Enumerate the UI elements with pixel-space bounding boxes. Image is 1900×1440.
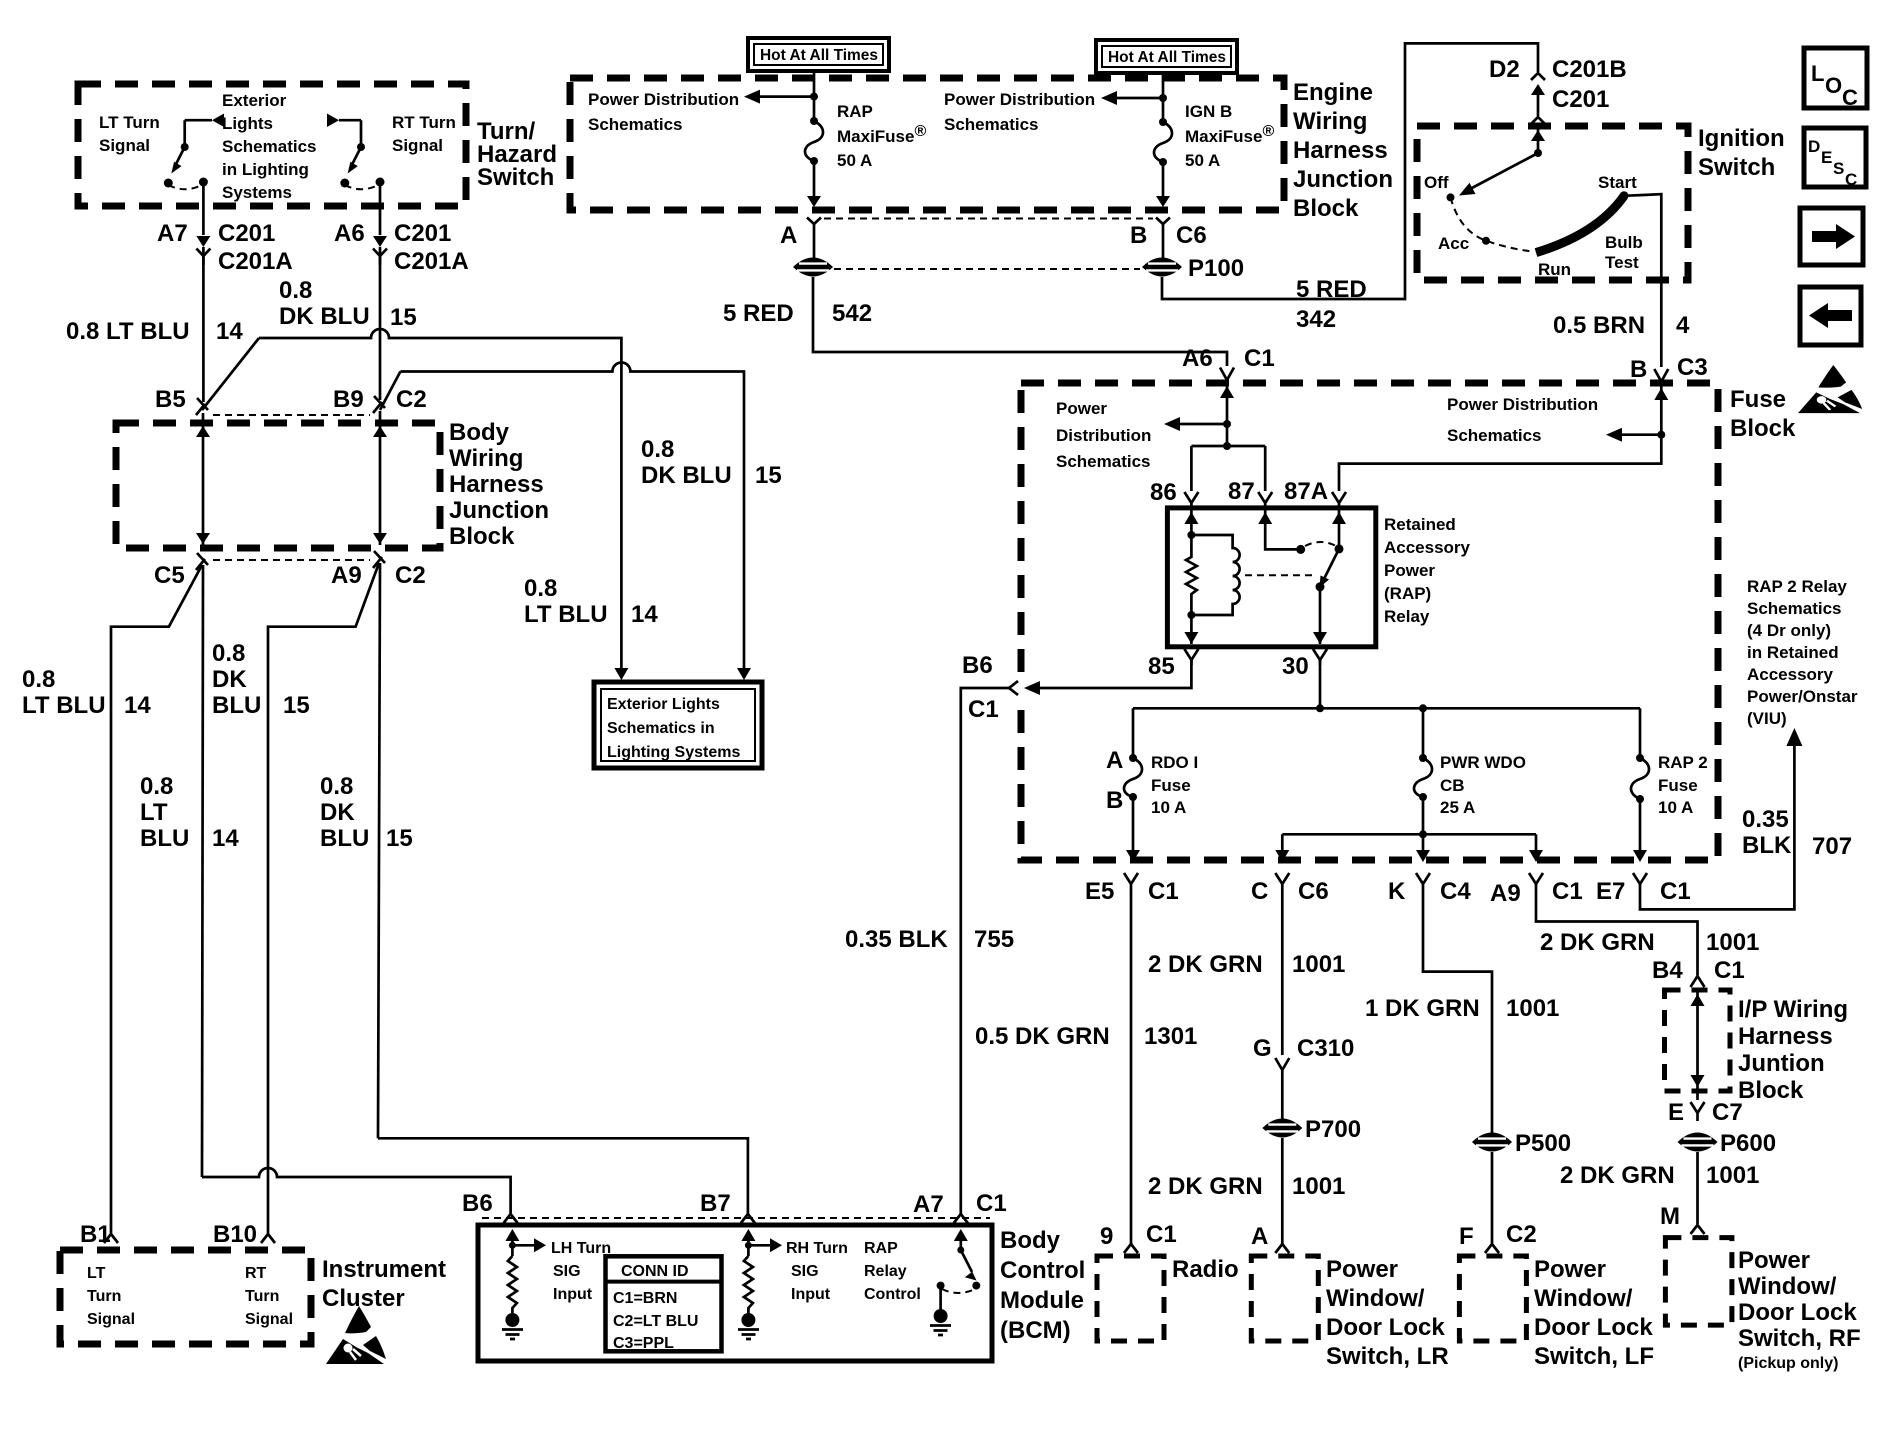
arrows on left junction wire: [196, 426, 210, 437]
svg-text:DK: DK: [320, 799, 355, 826]
svg-text:Harness: Harness: [1293, 137, 1388, 164]
svg-text:Body: Body: [449, 419, 510, 446]
Hot At All Times box 2: [1096, 40, 1237, 73]
B C3 connector into fuse block: [1654, 369, 1668, 382]
svg-text:C310: C310: [1297, 1035, 1354, 1062]
svg-text:C201B: C201B: [1552, 56, 1627, 83]
arrows on right junction wire: [373, 426, 387, 437]
RDO I fuse wire down: [1132, 708, 1135, 758]
svg-text:RAP 2 Relay: RAP 2 Relay: [1747, 577, 1847, 596]
D2 connector stack C201B / C201: [1531, 73, 1545, 80]
svg-text:RAP 2: RAP 2: [1658, 753, 1708, 772]
svg-text:A: A: [780, 222, 797, 249]
wire C5 straight down (to B6): [202, 565, 203, 1177]
svg-text:C1: C1: [1244, 345, 1275, 372]
svg-text:in Retained: in Retained: [1747, 643, 1839, 662]
svg-text:Signal: Signal: [87, 1311, 135, 1328]
svg-text:14: 14: [631, 601, 658, 628]
svg-text:542: 542: [832, 300, 872, 327]
wire diagonal B5 up to horizontal run: [202, 338, 259, 410]
svg-text:Run: Run: [1538, 260, 1571, 279]
svg-text:C1: C1: [1660, 878, 1691, 905]
svg-text:(RAP): (RAP): [1384, 584, 1431, 603]
wire horizontal 0.8 DK BLU run to exterior lights (with hop over first wire): [400, 363, 744, 669]
Power Window Door Lock Switch LR dashed box: [1251, 1256, 1318, 1341]
svg-text:Switch, LR: Switch, LR: [1326, 1343, 1449, 1370]
svg-text:1001: 1001: [1706, 929, 1759, 956]
svg-text:RAP: RAP: [837, 102, 873, 121]
svg-text:Window/: Window/: [1326, 1285, 1425, 1312]
PWR WDO CB wire down: [1422, 708, 1425, 758]
svg-text:F: F: [1459, 1223, 1474, 1250]
wire from Hot box2 down: [1162, 73, 1165, 121]
svg-text:Instrument: Instrument: [322, 1256, 446, 1283]
svg-text:B: B: [1630, 356, 1647, 383]
svg-text:15: 15: [755, 462, 782, 489]
svg-text:Power: Power: [1738, 1247, 1810, 1274]
wire fuse down to box edge with arrow: [1162, 162, 1165, 196]
svg-text:B: B: [1130, 222, 1147, 249]
svg-text:B: B: [1106, 787, 1123, 814]
Exterior Lights Schematics box: [594, 682, 762, 768]
svg-text:0.5 BRN: 0.5 BRN: [1553, 312, 1645, 339]
svg-text:Schematics: Schematics: [222, 137, 317, 156]
svg-text:Schematics: Schematics: [1447, 426, 1542, 445]
relay coil winding: [1191, 535, 1239, 615]
A9 connector (slanted): [373, 551, 385, 568]
relay pin 86 connector: [1184, 492, 1198, 508]
wire 542 from grommet to fuse block: [813, 277, 1227, 366]
wire A9 diagonal to B10 branch: [268, 563, 379, 1228]
svg-text:DK BLU: DK BLU: [279, 303, 370, 330]
BCM connector face dashed line: [482, 1217, 990, 1219]
svg-text:Juntion: Juntion: [1738, 1050, 1825, 1077]
svg-text:Exterior Lights: Exterior Lights: [607, 696, 720, 713]
svg-text:Relay: Relay: [864, 1263, 907, 1280]
svg-text:C2: C2: [1506, 1221, 1537, 1248]
Acc contact dot: [1482, 237, 1490, 245]
svg-text:0.8: 0.8: [22, 666, 55, 693]
svg-text:A7: A7: [913, 1191, 944, 1218]
svg-text:Switch: Switch: [477, 164, 554, 191]
svg-text:DK BLU: DK BLU: [641, 462, 732, 489]
svg-text:Signal: Signal: [99, 136, 150, 155]
wire C310 to P700: [1281, 1078, 1284, 1119]
svg-text:C1: C1: [968, 696, 999, 723]
svg-text:0.35: 0.35: [1742, 806, 1789, 833]
svg-text:4: 4: [1676, 312, 1690, 339]
svg-text:87A: 87A: [1284, 478, 1328, 505]
svg-text:15: 15: [386, 825, 413, 852]
wire from Hot box1 down: [813, 71, 816, 120]
connector face dashed line: [824, 218, 1153, 220]
RT turn switch: [327, 114, 385, 190]
svg-text:14: 14: [212, 825, 239, 852]
grommet P600: [1678, 1133, 1718, 1152]
RAP 2 fuse wire down: [1639, 708, 1642, 758]
svg-text:Switch: Switch: [1698, 154, 1775, 181]
svg-text:Block: Block: [1293, 195, 1359, 222]
svg-text:1301: 1301: [1144, 1023, 1197, 1050]
wire 85 to B6/C1 (RAP relay control): [1038, 660, 1191, 688]
arrow down into exterior lights box: [614, 668, 628, 680]
svg-text:0.35 BLK: 0.35 BLK: [845, 926, 948, 953]
I/P Wiring Harness Juntion Block dashed box: [1665, 990, 1731, 1091]
arrow down into exterior lights box: [737, 668, 751, 680]
svg-text:RH Turn: RH Turn: [786, 1240, 848, 1257]
svg-text:D: D: [1808, 137, 1820, 156]
splitter drop to A9/C1: [1535, 834, 1538, 850]
svg-text:Switch, LF: Switch, LF: [1534, 1343, 1654, 1370]
A6/C1 entry arrow up: [1226, 384, 1229, 424]
C C6 connector: [1275, 873, 1289, 896]
svg-text:C1: C1: [1714, 957, 1745, 984]
svg-text:Hot At All Times: Hot At All Times: [760, 47, 878, 64]
svg-text:0.8: 0.8: [524, 575, 557, 602]
relay contact 87 wire: [1265, 510, 1301, 549]
svg-text:P700: P700: [1305, 1116, 1361, 1143]
relay pin 87 connector: [1258, 492, 1272, 508]
svg-text:E7: E7: [1596, 878, 1625, 905]
svg-text:2 DK GRN: 2 DK GRN: [1148, 1173, 1263, 1200]
svg-text:Cluster: Cluster: [322, 1285, 405, 1312]
svg-text:Harness: Harness: [1738, 1023, 1833, 1050]
wire fuse down to box edge with arrow: [813, 161, 816, 196]
svg-text:1001: 1001: [1292, 951, 1345, 978]
svg-text:in Lighting: in Lighting: [222, 160, 309, 179]
svg-text:Test: Test: [1605, 253, 1639, 272]
svg-text:85: 85: [1148, 653, 1175, 680]
svg-text:9: 9: [1100, 1223, 1113, 1250]
left arrow icon box: [1800, 287, 1861, 345]
svg-text:86: 86: [1150, 479, 1177, 506]
B1 connector: [104, 1228, 118, 1243]
svg-text:C201A: C201A: [218, 248, 293, 275]
svg-text:50 A: 50 A: [1185, 151, 1220, 170]
svg-text:Accessory: Accessory: [1747, 665, 1834, 684]
svg-text:0.8: 0.8: [641, 436, 674, 463]
svg-text:(4 Dr only): (4 Dr only): [1747, 621, 1831, 640]
svg-text:C: C: [1251, 878, 1268, 905]
svg-text:25 A: 25 A: [1440, 798, 1475, 817]
svg-text:Wiring: Wiring: [1293, 108, 1367, 135]
svg-text:Turn: Turn: [87, 1288, 121, 1305]
svg-text:C1: C1: [1552, 878, 1583, 905]
relay coil wire to pin 85: [1190, 615, 1193, 644]
wire RDO I fuse to E5: [1132, 797, 1135, 850]
svg-text:Schematics: Schematics: [1056, 452, 1151, 471]
svg-text:Input: Input: [791, 1286, 831, 1303]
svg-text:C5: C5: [154, 562, 185, 589]
dashed curve 87 contact to 87A: [1305, 542, 1336, 546]
LOC icon box: [1804, 48, 1867, 110]
svg-text:B6: B6: [962, 652, 993, 679]
svg-text:Window/: Window/: [1534, 1285, 1633, 1312]
svg-text:I/P Wiring: I/P Wiring: [1738, 996, 1848, 1023]
svg-text:Systems: Systems: [222, 183, 292, 202]
BCM solid box: [478, 1225, 992, 1361]
Off contact dot: [1447, 193, 1455, 201]
G C310 connector: [1275, 1058, 1289, 1078]
wire B7 horizontal run: [378, 1138, 748, 1210]
svg-text:PWR WDO: PWR WDO: [1440, 753, 1526, 772]
svg-text:RAP: RAP: [864, 1240, 898, 1257]
B5 connector (slanted): [196, 398, 208, 415]
K C4 connector: [1416, 873, 1430, 896]
svg-text:C201: C201: [218, 220, 275, 247]
wire P600 down to M connector: [1696, 1152, 1699, 1224]
relay pin 87A connector: [1332, 492, 1346, 508]
Ignition Switch dashed box: [1417, 126, 1688, 280]
RAP MaxiFuse 50A fuse element: [810, 117, 818, 125]
wire A9 to B4 run: [1536, 896, 1698, 975]
svg-text:Module: Module: [1000, 1287, 1084, 1314]
relay resistor (parallel): [1186, 535, 1197, 615]
B4 C1 connector: [1691, 976, 1705, 987]
svg-text:S: S: [1833, 159, 1844, 178]
svg-text:Power: Power: [1534, 1256, 1606, 1283]
svg-text:Harness: Harness: [449, 471, 544, 498]
svg-text:C3=PPL: C3=PPL: [613, 1335, 674, 1352]
svg-text:2 DK GRN: 2 DK GRN: [1540, 929, 1655, 956]
relay arm wire to pin 30: [1319, 587, 1322, 644]
fuse bus: [1133, 707, 1640, 710]
RAP Relay Control switch circuit: [930, 1229, 980, 1335]
svg-text:BLU: BLU: [140, 825, 189, 852]
svg-text:Power Distribution: Power Distribution: [944, 90, 1095, 109]
svg-text:C1=BRN: C1=BRN: [613, 1290, 677, 1307]
svg-text:342: 342: [1296, 306, 1336, 333]
wire through junction block right: [379, 411, 382, 545]
svg-text:BLU: BLU: [320, 825, 369, 852]
E5 C1 connector: [1124, 873, 1138, 896]
svg-text:LT BLU: LT BLU: [22, 692, 106, 719]
A connector (power window LR): [1275, 1240, 1289, 1253]
svg-text:Exterior: Exterior: [222, 91, 287, 110]
svg-text:A: A: [1251, 1223, 1268, 1250]
wire down to 86/87 splitter: [1226, 424, 1229, 446]
dashed detent arc Off-Acc-Run: [1451, 197, 1534, 251]
svg-text:C3: C3: [1677, 354, 1708, 381]
connector C201/C201A arrow+Y on A7 wire: [196, 236, 210, 247]
svg-text:LT: LT: [140, 799, 168, 826]
wire K to P500 run: [1423, 896, 1492, 1133]
junction dot: [1159, 94, 1167, 102]
svg-text:14: 14: [124, 692, 151, 719]
svg-text:Block: Block: [1738, 1077, 1804, 1104]
svg-text:A: A: [1106, 747, 1123, 774]
svg-text:C4: C4: [1440, 878, 1471, 905]
wire A9 straight down (to B7): [378, 563, 380, 1138]
svg-text:P600: P600: [1720, 1130, 1776, 1157]
RH Turn SIG Input circuit: [738, 1229, 782, 1339]
wire from Start down to fuse block: [1624, 194, 1661, 367]
svg-text:E: E: [1668, 1099, 1684, 1126]
svg-text:A7: A7: [157, 220, 188, 247]
svg-text:C1: C1: [976, 1190, 1007, 1217]
svg-text:Relay: Relay: [1384, 607, 1430, 626]
svg-text:14: 14: [216, 318, 243, 345]
Run-Start thick arc (Bulb Test range): [1536, 196, 1624, 253]
svg-text:LT: LT: [87, 1265, 106, 1282]
M connector: [1691, 1225, 1705, 1234]
svg-text:(Pickup only): (Pickup only): [1738, 1355, 1838, 1372]
A7 connector (BCM): [954, 1210, 968, 1223]
grommet P100 left: [793, 258, 833, 277]
arrow to power distribution schematics (fuse block right): [1620, 433, 1661, 436]
B10 connector: [261, 1228, 275, 1243]
svg-text:87: 87: [1228, 478, 1255, 505]
svg-text:Schematics: Schematics: [1747, 599, 1842, 618]
grommet P100 right: [1142, 258, 1182, 277]
splitter drop to K/C4: [1422, 834, 1425, 850]
svg-text:B1: B1: [80, 1221, 111, 1248]
svg-text:Input: Input: [553, 1286, 593, 1303]
wire RAP relay control down to BCM A7: [961, 688, 1009, 1210]
svg-text:C2=LT BLU: C2=LT BLU: [613, 1313, 698, 1330]
svg-text:C: C: [1845, 170, 1857, 189]
svg-text:Distribution: Distribution: [1056, 426, 1151, 445]
svg-text:A6: A6: [334, 220, 365, 247]
svg-text:Door Lock: Door Lock: [1534, 1314, 1653, 1341]
svg-text:L: L: [1811, 61, 1824, 86]
relay pin 30 connector: [1313, 649, 1327, 665]
svg-text:Fuse: Fuse: [1730, 386, 1786, 413]
svg-text:E: E: [1821, 148, 1832, 167]
Power Window Door Lock Switch LF dashed box: [1459, 1256, 1526, 1341]
svg-text:C201: C201: [394, 220, 451, 247]
wire E5 down to radio: [1130, 896, 1133, 1240]
svg-text:Hot At All Times: Hot At All Times: [1108, 49, 1226, 66]
B6 C1 connector at fuse block edge: [1009, 681, 1018, 695]
svg-text:Power: Power: [1056, 399, 1107, 418]
svg-text:Junction: Junction: [449, 497, 549, 524]
Fuse Block dashed box: [1021, 383, 1718, 860]
svg-text:Power: Power: [1384, 561, 1435, 580]
wire B to grommet: [1162, 224, 1165, 258]
svg-text:Acc: Acc: [1438, 234, 1469, 253]
svg-text:RT Turn: RT Turn: [392, 113, 456, 132]
Hot At All Times box 1: [748, 38, 889, 71]
svg-text:Control: Control: [864, 1286, 921, 1303]
RAP 2 fuse element: [1631, 758, 1649, 799]
svg-text:B4: B4: [1652, 957, 1683, 984]
svg-text:K: K: [1388, 878, 1406, 905]
Power Window Door Lock Switch RF dashed box: [1665, 1238, 1732, 1326]
LH Turn SIG Input circuit: [502, 1229, 546, 1339]
LT turn switch: [164, 114, 224, 190]
svg-text:10 A: 10 A: [1658, 798, 1693, 817]
svg-text:(BCM): (BCM): [1000, 1317, 1071, 1344]
wire C5 diagonal to B1 branch: [111, 565, 202, 1228]
Turn/Hazard Switch dashed box: [78, 84, 466, 206]
grommet P700: [1262, 1119, 1302, 1138]
ESD symbol (instrument cluster): [326, 1306, 386, 1364]
wire diagonal B9 up to horizontal run: [380, 372, 400, 411]
svg-text:E5: E5: [1085, 878, 1114, 905]
svg-text:Radio: Radio: [1172, 1256, 1239, 1283]
A6 C1 connector into fuse block: [1220, 368, 1234, 381]
svg-text:BLK: BLK: [1742, 832, 1792, 859]
Start contact dot: [1620, 191, 1629, 200]
svg-text:Retained: Retained: [1384, 515, 1456, 534]
svg-text:Signal: Signal: [245, 1311, 293, 1328]
svg-text:0.8 LT BLU: 0.8 LT BLU: [66, 318, 190, 345]
svg-text:707: 707: [1812, 833, 1852, 860]
svg-text:D2: D2: [1489, 56, 1520, 83]
svg-text:C2: C2: [395, 562, 426, 589]
B7 connector (BCM): [741, 1210, 755, 1223]
connector A below engine box: [807, 218, 821, 225]
right arrow icon box: [1800, 208, 1863, 265]
svg-text:BLU: BLU: [212, 692, 261, 719]
PWR WDO CB element: [1414, 758, 1432, 797]
wire RAP 2 fuse to E7: [1639, 799, 1642, 850]
relay movable arm: [1324, 549, 1339, 579]
connector face dashed line B5-B9: [213, 414, 370, 416]
wire 342 from grommet B to D2: [1162, 43, 1538, 299]
svg-text:Schematics: Schematics: [588, 115, 683, 134]
splitter drop to C/C6: [1281, 834, 1284, 850]
C5 connector (slanted): [196, 553, 208, 570]
svg-text:C1: C1: [1146, 1221, 1177, 1248]
IGN B MaxiFuse 50A fuse element: [1159, 118, 1167, 126]
Radio dashed box: [1097, 1256, 1164, 1341]
RDO I fuse element: [1124, 758, 1142, 797]
svg-text:Switch, RF: Switch, RF: [1738, 1325, 1861, 1352]
splitter to relay pins 86 and 87: [1191, 446, 1265, 491]
svg-text:LT Turn: LT Turn: [99, 113, 160, 132]
arrow to power distribution schematics (fuse block left): [1178, 423, 1227, 426]
dashed mechanical link coil to arm: [1245, 574, 1317, 576]
svg-text:Start: Start: [1598, 173, 1637, 192]
svg-text:0.8: 0.8: [320, 773, 353, 800]
svg-text:B9: B9: [333, 386, 364, 413]
svg-text:Door Lock: Door Lock: [1738, 1299, 1857, 1326]
svg-text:G: G: [1253, 1035, 1272, 1062]
B9 connector (slanted): [373, 396, 385, 413]
Body Wiring Harness Junction Block dashed box: [116, 423, 440, 548]
svg-text:10 A: 10 A: [1151, 798, 1186, 817]
svg-text:O: O: [1825, 73, 1842, 98]
wire 30 down to fuse bus: [1319, 660, 1322, 708]
svg-text:Lights: Lights: [222, 114, 273, 133]
svg-text:CONN ID: CONN ID: [621, 1263, 689, 1280]
svg-text:Door Lock: Door Lock: [1326, 1314, 1445, 1341]
svg-text:M: M: [1660, 1203, 1680, 1230]
svg-text:Power Distribution: Power Distribution: [1447, 395, 1598, 414]
wire P500 down to F connector: [1491, 1152, 1494, 1240]
svg-text:15: 15: [283, 692, 310, 719]
svg-text:RDO I: RDO I: [1151, 753, 1198, 772]
svg-text:A9: A9: [1490, 880, 1521, 907]
svg-text:1001: 1001: [1506, 995, 1559, 1022]
wire E7 to RAP 2 relay schematics (707): [1640, 744, 1794, 909]
svg-text:C6: C6: [1176, 222, 1207, 249]
svg-text:Control: Control: [1000, 1257, 1085, 1284]
svg-text:SIG: SIG: [791, 1263, 819, 1280]
DESC icon box: [1804, 128, 1866, 189]
junction dot: [810, 93, 818, 101]
svg-text:Ignition: Ignition: [1698, 125, 1785, 152]
svg-text:Turn: Turn: [245, 1288, 279, 1305]
B/C3 entry arrow up: [1654, 388, 1668, 400]
svg-text:2 DK GRN: 2 DK GRN: [1148, 951, 1263, 978]
svg-text:15: 15: [390, 304, 417, 331]
wire A to grommet: [813, 224, 816, 258]
svg-text:B5: B5: [155, 386, 186, 413]
svg-text:CB: CB: [1440, 776, 1465, 795]
